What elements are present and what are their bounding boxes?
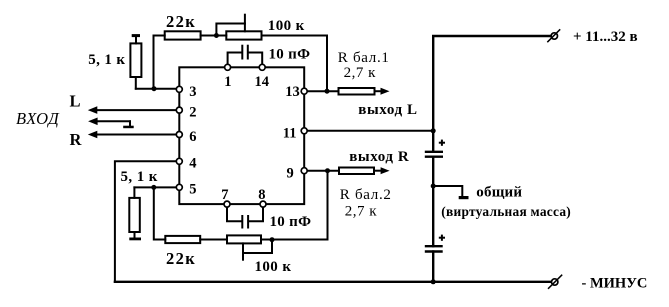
svg-text:3: 3 bbox=[189, 84, 196, 100]
svg-text:10 пФ: 10 пФ bbox=[269, 46, 311, 62]
svg-text:R бал.2: R бал.2 bbox=[340, 187, 392, 203]
svg-text:10 пФ: 10 пФ bbox=[270, 214, 312, 230]
svg-text:общий: общий bbox=[476, 184, 522, 200]
svg-text:+ 11...32 в: + 11...32 в bbox=[573, 29, 638, 45]
svg-text:5, 1 к: 5, 1 к bbox=[88, 52, 125, 68]
svg-text:22к: 22к bbox=[166, 12, 196, 31]
svg-text:(виртуальная масса): (виртуальная масса) bbox=[441, 204, 571, 219]
svg-text:13: 13 bbox=[285, 84, 300, 100]
svg-text:100 к: 100 к bbox=[255, 259, 292, 275]
svg-text:7: 7 bbox=[221, 187, 228, 203]
svg-text:22к: 22к bbox=[166, 249, 196, 268]
svg-text:8: 8 bbox=[258, 187, 265, 203]
svg-text:11: 11 bbox=[283, 125, 297, 141]
svg-text:R бал.1: R бал.1 bbox=[338, 50, 390, 66]
svg-text:2,7 к: 2,7 к bbox=[345, 203, 378, 219]
svg-text:5: 5 bbox=[189, 181, 196, 197]
svg-text:ВХОД: ВХОД bbox=[16, 109, 60, 128]
svg-text:L: L bbox=[70, 92, 81, 111]
svg-text:R: R bbox=[70, 130, 83, 149]
svg-text:выход L: выход L bbox=[358, 102, 417, 118]
svg-text:14: 14 bbox=[255, 74, 270, 90]
svg-text:6: 6 bbox=[189, 129, 196, 145]
svg-text:5, 1 к: 5, 1 к bbox=[121, 169, 158, 185]
svg-text:2,7 к: 2,7 к bbox=[344, 65, 377, 81]
svg-text:- МИНУС: - МИНУС bbox=[582, 276, 648, 292]
svg-text:1: 1 bbox=[224, 74, 231, 90]
svg-text:9: 9 bbox=[287, 165, 294, 181]
svg-text:выход R: выход R bbox=[349, 149, 409, 165]
svg-text:100 к: 100 к bbox=[268, 18, 305, 34]
svg-text:2: 2 bbox=[189, 105, 196, 121]
svg-text:4: 4 bbox=[189, 156, 196, 172]
